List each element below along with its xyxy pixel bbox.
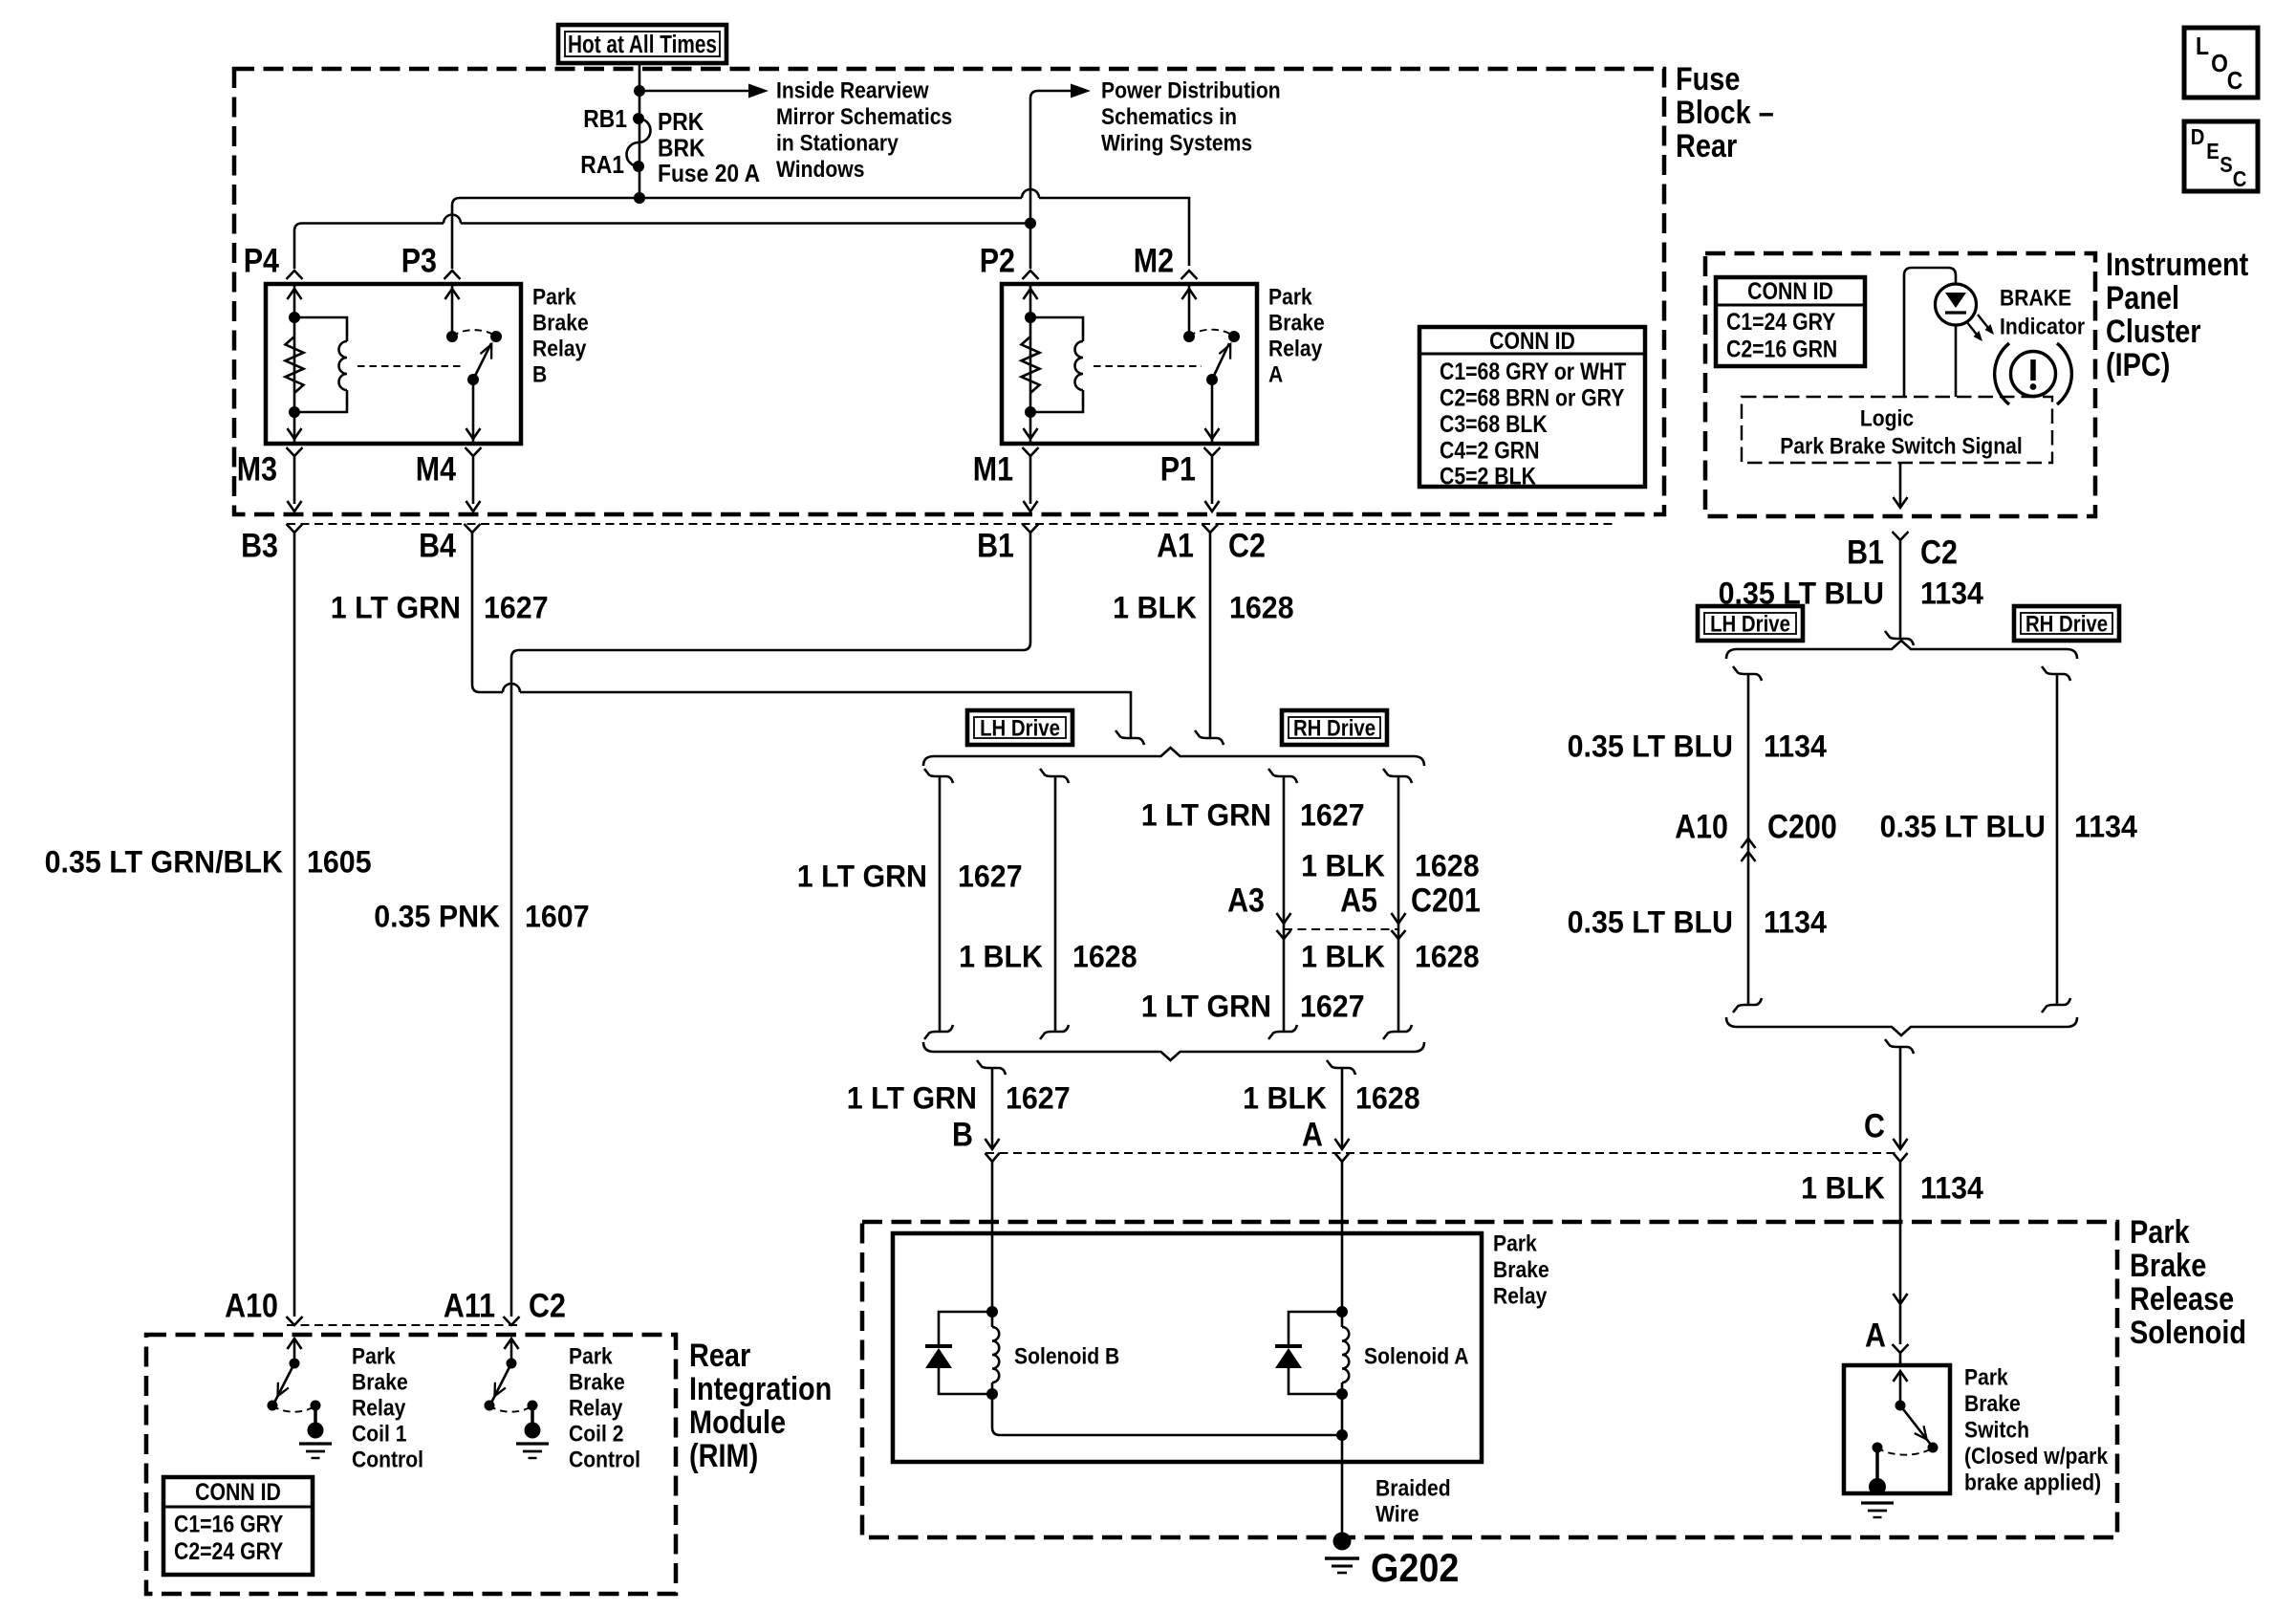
svg-text:M1: M1 [973,449,1013,487]
svg-text:1 BLK: 1 BLK [1301,940,1385,974]
svg-text:BRK: BRK [658,135,705,163]
svg-text:Brake: Brake [1964,1391,2021,1417]
svg-text:1627: 1627 [1300,798,1365,833]
svg-text:Inside Rearview: Inside Rearview [776,77,929,103]
svg-text:1628: 1628 [1229,591,1294,625]
svg-text:P3: P3 [401,241,437,278]
svg-text:S: S [2220,152,2233,178]
svg-text:A: A [1268,361,1283,387]
svg-text:P2: P2 [980,241,1015,278]
svg-text:Wire: Wire [1375,1501,1419,1527]
svg-text:1134: 1134 [1764,729,1828,764]
svg-text:1 BLK: 1 BLK [1113,591,1197,625]
svg-text:(IPC): (IPC) [2106,346,2170,383]
svg-text:C: C [2233,166,2247,192]
svg-text:P1: P1 [1160,449,1196,487]
svg-text:RH Drive: RH Drive [2025,611,2108,637]
svg-text:Park: Park [1268,284,1312,310]
svg-text:0.35 PNK: 0.35 PNK [374,900,500,934]
svg-text:Fuse: Fuse [1676,60,1740,98]
svg-text:Control: Control [352,1447,423,1472]
svg-text:Schematics in: Schematics in [1101,104,1237,130]
svg-text:(Closed w/park: (Closed w/park [1964,1444,2109,1469]
svg-text:0.35 LT GRN/BLK: 0.35 LT GRN/BLK [45,845,284,880]
svg-text:C2=68 BRN or GRY: C2=68 BRN or GRY [1440,384,1625,411]
svg-text:B: B [952,1115,973,1152]
svg-text:Brake: Brake [569,1369,625,1395]
svg-text:Solenoid B: Solenoid B [1014,1343,1119,1369]
svg-text:Relay: Relay [1493,1283,1548,1309]
svg-text:Solenoid: Solenoid [2130,1314,2246,1351]
svg-text:1627: 1627 [1006,1081,1071,1116]
svg-text:Rear: Rear [1676,127,1737,164]
svg-text:B: B [532,361,547,387]
svg-text:Logic: Logic [1860,405,1914,431]
svg-text:P4: P4 [244,241,280,278]
svg-text:Block –: Block – [1676,94,1774,131]
svg-text:Wiring Systems: Wiring Systems [1101,130,1252,156]
svg-text:in Stationary: in Stationary [776,130,899,156]
svg-text:RB1: RB1 [583,106,627,134]
svg-text:1628: 1628 [1415,849,1480,883]
svg-text:Cluster: Cluster [2106,313,2201,350]
svg-text:C5=2 BLK: C5=2 BLK [1440,463,1536,490]
svg-text:RH Drive: RH Drive [1293,715,1375,741]
svg-text:C: C [1864,1106,1885,1143]
svg-text:Park: Park [2130,1213,2190,1251]
svg-text:C1=68 GRY or WHT: C1=68 GRY or WHT [1440,358,1626,384]
svg-text:A10: A10 [1675,807,1728,844]
svg-text:1628: 1628 [1072,940,1137,974]
svg-text:A3: A3 [1227,881,1265,918]
svg-text:C2=16 GRN: C2=16 GRN [1726,336,1837,362]
svg-text:brake applied): brake applied) [1964,1469,2101,1495]
svg-text:CONN ID: CONN ID [195,1478,281,1505]
svg-text:Solenoid A: Solenoid A [1364,1343,1468,1369]
svg-text:Braided: Braided [1375,1475,1451,1501]
svg-text:1627: 1627 [484,591,549,625]
svg-text:A1: A1 [1157,526,1194,563]
svg-text:C200: C200 [1767,807,1837,844]
svg-text:C201: C201 [1411,881,1481,918]
svg-text:Park: Park [532,284,576,310]
svg-text:D: D [2191,124,2205,150]
svg-text:Panel: Panel [2106,279,2179,316]
svg-text:Instrument: Instrument [2106,246,2249,283]
svg-text:(RIM): (RIM) [689,1437,758,1474]
svg-text:Park: Park [352,1343,396,1369]
svg-text:Coil 2: Coil 2 [569,1421,623,1447]
svg-text:C4=2 GRN: C4=2 GRN [1440,437,1539,464]
svg-text:G202: G202 [1371,1546,1459,1590]
svg-text:M3: M3 [237,449,277,487]
svg-text:1 BLK: 1 BLK [1801,1171,1885,1206]
svg-text:C3=68 BLK: C3=68 BLK [1440,410,1548,437]
svg-text:Park: Park [1964,1364,2008,1390]
svg-text:Hot at All Times: Hot at All Times [568,31,717,58]
svg-text:Integration: Integration [689,1370,832,1407]
svg-text:B4: B4 [419,526,457,563]
svg-text:Release: Release [2130,1280,2234,1317]
svg-text:LH Drive: LH Drive [1710,611,1790,637]
svg-text:Brake: Brake [1268,310,1325,336]
svg-text:Relay: Relay [1268,336,1323,361]
svg-text:0.35 LT BLU: 0.35 LT BLU [1568,905,1733,940]
svg-text:Fuse 20 A: Fuse 20 A [658,161,760,188]
svg-text:1 LT GRN: 1 LT GRN [1141,990,1271,1024]
svg-text:C2: C2 [529,1286,566,1323]
svg-text:Control: Control [569,1447,640,1472]
svg-text:E: E [2206,139,2220,164]
svg-text:Coil 1: Coil 1 [352,1421,406,1447]
svg-text:A: A [1302,1115,1323,1152]
svg-text:0.35 LT BLU: 0.35 LT BLU [1880,810,2046,844]
svg-text:Relay: Relay [352,1395,406,1421]
svg-text:1134: 1134 [2074,810,2138,844]
svg-text:B3: B3 [241,526,278,563]
svg-text:1134: 1134 [1920,1171,1984,1206]
svg-text:Windows: Windows [776,157,864,183]
svg-text:B1: B1 [1847,533,1884,570]
svg-text:A11: A11 [444,1286,495,1323]
svg-text:1628: 1628 [1355,1081,1420,1116]
svg-text:Park: Park [569,1343,613,1369]
svg-text:0.35 LT BLU: 0.35 LT BLU [1568,729,1733,764]
svg-text:C2: C2 [1228,526,1266,563]
svg-text:Park: Park [1493,1230,1537,1256]
svg-text:Brake: Brake [1493,1257,1549,1283]
svg-text:A5: A5 [1340,881,1377,918]
svg-text:Module: Module [689,1404,786,1441]
svg-text:1628: 1628 [1415,940,1480,974]
svg-text:1627: 1627 [1300,990,1365,1024]
svg-text:1 LT GRN: 1 LT GRN [1141,798,1271,833]
svg-text:1134: 1134 [1920,577,1984,611]
svg-text:C1=24 GRY: C1=24 GRY [1726,308,1836,335]
svg-text:Relay: Relay [569,1395,623,1421]
svg-text:RA1: RA1 [580,152,624,180]
svg-text:CONN ID: CONN ID [1747,277,1833,304]
svg-text:1134: 1134 [1764,905,1828,940]
svg-text:1 BLK: 1 BLK [1301,849,1385,883]
svg-text:Brake: Brake [2130,1247,2206,1284]
svg-text:Power Distribution: Power Distribution [1101,77,1281,103]
svg-text:Indicator: Indicator [2000,314,2085,339]
svg-text:B1: B1 [977,526,1014,563]
svg-text:C2=24 GRY: C2=24 GRY [174,1537,284,1564]
svg-text:BRAKE: BRAKE [2000,285,2071,311]
svg-text:C: C [2227,68,2243,96]
svg-text:C2: C2 [1920,533,1958,570]
svg-text:1 LT GRN: 1 LT GRN [797,860,927,894]
svg-text:A: A [1865,1316,1886,1353]
svg-text:L: L [2196,33,2209,61]
svg-text:Brake: Brake [352,1369,408,1395]
svg-text:CONN ID: CONN ID [1489,327,1575,354]
svg-text:1627: 1627 [958,860,1023,894]
svg-text:1 BLK: 1 BLK [1243,1081,1327,1116]
svg-text:Rear: Rear [689,1337,750,1374]
svg-text:O: O [2211,51,2228,78]
svg-text:M2: M2 [1134,241,1174,278]
svg-text:Switch: Switch [1964,1417,2029,1443]
svg-text:Park Brake Switch Signal: Park Brake Switch Signal [1780,433,2022,459]
svg-text:Mirror Schematics: Mirror Schematics [776,104,952,130]
svg-text:1 LT GRN: 1 LT GRN [331,591,461,625]
svg-text:1 BLK: 1 BLK [959,940,1043,974]
svg-text:1605: 1605 [307,845,372,880]
svg-text:Relay: Relay [532,336,587,361]
svg-text:1 LT GRN: 1 LT GRN [847,1081,977,1116]
svg-text:1607: 1607 [525,900,590,934]
svg-text:PRK: PRK [658,109,704,137]
svg-text:LH Drive: LH Drive [980,715,1060,741]
svg-text:Brake: Brake [532,310,589,336]
svg-text:A10: A10 [225,1286,278,1323]
svg-text:M4: M4 [416,449,457,487]
svg-text:C1=16 GRY: C1=16 GRY [174,1511,284,1537]
